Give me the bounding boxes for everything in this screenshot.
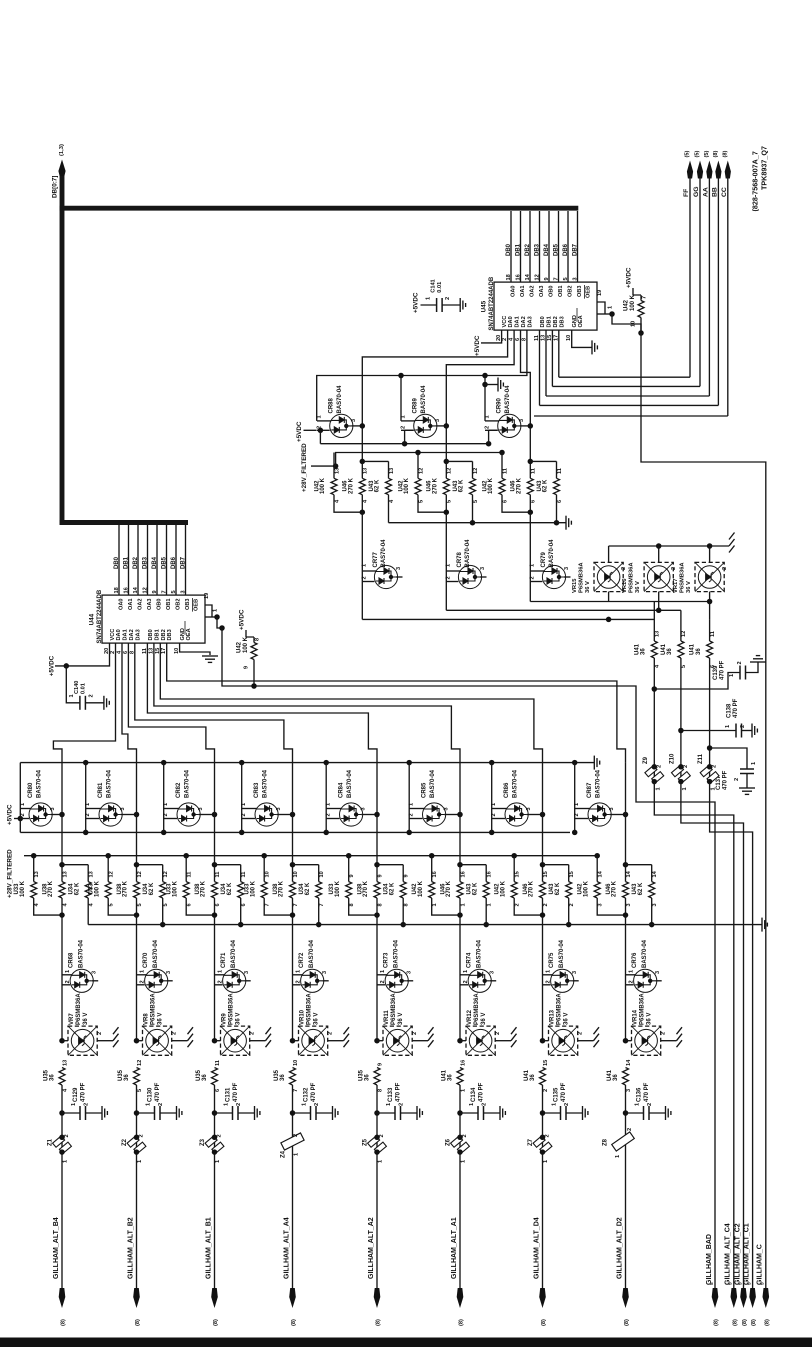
svg-text:2: 2 [84, 1103, 90, 1106]
svg-text:5: 5 [447, 500, 453, 503]
suppressor VR17 P6SMB36A 36V [709, 546, 711, 562]
IC U45 SN74ABT2244ADB buffer [494, 282, 597, 330]
svg-text:5: 5 [137, 903, 143, 906]
capacitor C131 470PF [212, 1110, 218, 1116]
svg-text:(8): (8) [213, 1319, 219, 1326]
svg-text:11: 11 [710, 631, 716, 637]
svg-text:DB2: DB2 [133, 556, 139, 569]
svg-text:270 K: 270 K [433, 477, 439, 494]
svg-text:2: 2 [445, 297, 451, 300]
svg-text:12: 12 [534, 274, 540, 280]
connector GILLHAM_BAD [712, 1288, 719, 1308]
capacitor C129 470PF [59, 1110, 65, 1116]
svg-text:BAS70-04: BAS70-04 [79, 939, 85, 968]
svg-text:CR87: CR87 [587, 782, 593, 798]
svg-text:AA: AA [702, 187, 709, 197]
off-page connector BB [715, 161, 721, 179]
resistor U41 36 ohm #2 [680, 610, 682, 641]
svg-text:2: 2 [578, 1032, 584, 1035]
ground at VR14 [677, 1027, 683, 1034]
svg-text:P6SMB36A: P6SMB36A [76, 993, 82, 1025]
svg-text:6: 6 [241, 903, 247, 906]
capacitor C139 470PF [652, 686, 658, 692]
resistor U41 36 ohm column 8 [623, 1068, 629, 1086]
rail +5VDC diode row top [20, 762, 594, 764]
wire enable net to GILLHAM_BAD [222, 628, 715, 1288]
svg-text:270 K: 270 K [279, 880, 285, 897]
svg-text:2: 2 [543, 1089, 549, 1092]
svg-text:U42: U42 [624, 299, 630, 311]
svg-text:CR68: CR68 [69, 952, 75, 968]
svg-text:1: 1 [163, 803, 169, 806]
svg-text:3: 3 [490, 971, 496, 974]
svg-text:OA2: OA2 [529, 285, 535, 297]
diode CR74 BAS70-04 dual [460, 974, 470, 976]
svg-text:DB3: DB3 [142, 556, 148, 569]
svg-text:U41: U41 [690, 643, 696, 655]
svg-text:1: 1 [361, 564, 367, 567]
svg-text:1: 1 [445, 564, 451, 567]
suppressor Z1 [61, 1132, 63, 1289]
svg-text:1: 1 [545, 970, 551, 973]
resistor trio 1 top section (U42 100K / U46 270K / U43 62K) [333, 453, 335, 479]
svg-text:C140: C140 [74, 681, 80, 694]
svg-text:DB2: DB2 [161, 629, 167, 640]
rail diode row bottom [20, 831, 570, 833]
svg-text:16: 16 [515, 274, 521, 280]
svg-text:1: 1 [460, 903, 466, 906]
svg-text:P6SMB36A: P6SMB36A [557, 993, 563, 1025]
svg-text:VR16: VR16 [622, 578, 628, 593]
svg-text:C138: C138 [727, 703, 733, 718]
resistor trio 2 top section (U42 100K / U46 270K / U43 62K) [415, 450, 421, 456]
svg-text:OB2: OB2 [175, 598, 181, 610]
svg-text:(5): (5) [704, 151, 710, 158]
trio 2 bottom ties [418, 495, 446, 513]
svg-text:1: 1 [615, 1155, 621, 1158]
connector GILLHAM_ALT_C2 [740, 1288, 747, 1308]
svg-text:1: 1 [137, 1160, 143, 1163]
svg-text:1: 1 [378, 1160, 384, 1163]
svg-text:1: 1 [380, 970, 386, 973]
svg-text:Z7: Z7 [528, 1138, 534, 1146]
diode CR88 BAS70-04 dual [317, 420, 331, 422]
resistor U35 36 ohm column 5 [374, 1068, 380, 1086]
svg-text:36 V: 36 V [158, 1013, 164, 1025]
svg-text:19: 19 [597, 290, 603, 296]
svg-text:6: 6 [215, 903, 221, 906]
svg-text:2: 2 [326, 813, 332, 816]
svg-text:270 K: 270 K [529, 880, 535, 897]
svg-text:VR9: VR9 [222, 1013, 228, 1025]
svg-text:1: 1 [655, 787, 661, 790]
svg-text:C135: C135 [554, 1087, 560, 1102]
svg-text:100 K: 100 K [243, 636, 249, 653]
diode CR70 BAS70-04 dual [137, 974, 147, 976]
svg-text:1: 1 [491, 803, 497, 806]
svg-text:10: 10 [319, 871, 325, 877]
svg-text:13: 13 [655, 631, 661, 637]
svg-text:BAS70-04: BAS70-04 [465, 539, 471, 568]
svg-text:(8): (8) [732, 1319, 738, 1326]
svg-text:U35: U35 [44, 1069, 50, 1081]
rail +28V top resistor network [336, 453, 502, 467]
connector GILLHAM_ALT_A4 [289, 1288, 296, 1308]
svg-text:7: 7 [265, 903, 271, 906]
svg-text:OB1: OB1 [558, 285, 564, 297]
rail VR15-17 tops to ground [609, 545, 729, 547]
svg-text:12: 12 [681, 631, 687, 637]
svg-text:3: 3 [396, 567, 402, 570]
svg-text:12: 12 [137, 1060, 143, 1066]
svg-text:100 K: 100 K [418, 880, 424, 897]
svg-text:GILLHAM_ALT_C1: GILLHAM_ALT_C1 [743, 1223, 750, 1285]
svg-text:9: 9 [404, 874, 410, 877]
svg-text:1: 1 [725, 725, 731, 728]
off-page connector GG [697, 161, 703, 179]
svg-text:CR79: CR79 [541, 551, 547, 567]
diode CR71 BAS70-04 dual [215, 974, 225, 976]
svg-text:2: 2 [139, 980, 145, 983]
wire U44 VCC +5VDC [55, 643, 110, 666]
svg-text:62 K: 62 K [555, 882, 561, 895]
svg-text:2: 2 [217, 980, 223, 983]
svg-text:62 K: 62 K [389, 882, 395, 895]
svg-text:(8): (8) [742, 1319, 748, 1326]
svg-text:3: 3 [519, 419, 525, 422]
svg-text:470 PF: 470 PF [233, 1082, 239, 1102]
svg-text:DB6: DB6 [171, 556, 177, 569]
svg-text:GG: GG [693, 186, 700, 197]
svg-text:DA2: DA2 [521, 316, 527, 327]
svg-text:36 V: 36 V [236, 1013, 242, 1025]
svg-text:2: 2 [482, 1103, 488, 1106]
svg-text:1: 1 [608, 306, 614, 309]
svg-text:470 PF: 470 PF [722, 770, 728, 790]
svg-text:36 V: 36 V [686, 581, 692, 593]
resistor U41 36 ohm column 7 [540, 1068, 546, 1086]
svg-text:GILLHAM_ALT_D4: GILLHAM_ALT_D4 [533, 1217, 540, 1279]
svg-text:1: 1 [71, 1103, 77, 1106]
svg-text:BAS70-04: BAS70-04 [642, 939, 648, 968]
svg-text:OB2: OB2 [567, 285, 573, 297]
svg-text:2: 2 [737, 661, 743, 664]
svg-text:7: 7 [642, 296, 648, 299]
resistor U41 36 ohm column 6 [457, 1068, 463, 1086]
connector GILLHAM_ALT_A1 [457, 1288, 464, 1308]
diode CR78 BAS70-04 dual [445, 571, 447, 610]
svg-text:Z1: Z1 [48, 1138, 54, 1146]
svg-text:12: 12 [109, 871, 115, 877]
svg-text:C130: C130 [148, 1087, 154, 1102]
suppressor VR11 P6SMB36A 36V [374, 1038, 380, 1044]
svg-text:3: 3 [120, 807, 126, 810]
connector GILLHAM_ALT_D4 [539, 1288, 546, 1308]
resistor U35 36 ohm column 1 [59, 1068, 65, 1086]
svg-text:470 PF: 470 PF [311, 1082, 317, 1102]
svg-text:U41: U41 [524, 1069, 530, 1081]
resistor trio lower #6 (U42 100 K / U46 270 K / U43 62 K) [429, 853, 435, 859]
svg-text:DA0: DA0 [116, 629, 122, 640]
svg-text:36 V: 36 V [564, 1013, 570, 1025]
svg-text:2: 2 [217, 1134, 223, 1137]
svg-text:CR90: CR90 [497, 397, 503, 413]
svg-text:15: 15 [543, 871, 549, 877]
svg-text:3: 3 [626, 903, 632, 906]
svg-text:2: 2 [361, 576, 367, 579]
svg-text:470 PF: 470 PF [155, 1082, 161, 1102]
resistor trio lower #4 (U33 100 K / U38 270 K / U34 62 K) [261, 853, 267, 859]
svg-text:DB5: DB5 [161, 556, 167, 569]
connector GILLHAM_ALT_B2 [133, 1288, 140, 1308]
svg-text:Z10: Z10 [669, 753, 675, 764]
svg-text:BAS70-04: BAS70-04 [106, 769, 112, 798]
suppressor VR13 P6SMB36A 36V [540, 1038, 546, 1044]
svg-text:36 V: 36 V [83, 1013, 89, 1025]
svg-text:1: 1 [65, 970, 71, 973]
svg-text:2: 2 [20, 813, 26, 816]
svg-text:6: 6 [502, 500, 508, 503]
svg-text:1: 1 [529, 564, 535, 567]
svg-text:1: 1 [751, 762, 757, 765]
svg-text:100 K: 100 K [20, 880, 26, 897]
svg-text:CC: CC [721, 187, 728, 197]
svg-text:(8): (8) [459, 1319, 465, 1326]
svg-text:9: 9 [349, 874, 355, 877]
svg-text:OEB: OEB [586, 286, 592, 298]
svg-text:CR80: CR80 [28, 782, 34, 798]
svg-text:(8): (8) [376, 1319, 382, 1326]
diode CR90 BAS70-04 dual [482, 373, 488, 379]
svg-text:2: 2 [661, 1032, 667, 1035]
svg-text:VR14: VR14 [633, 1009, 639, 1025]
svg-text:3: 3 [276, 807, 282, 810]
svg-text:BAS70-04: BAS70-04 [421, 385, 427, 414]
svg-text:16: 16 [487, 871, 493, 877]
svg-text:1: 1 [682, 787, 688, 790]
svg-text:DB0: DB0 [148, 629, 154, 640]
svg-text:1: 1 [295, 970, 301, 973]
svg-text:11: 11 [531, 468, 537, 474]
svg-text:DB5: DB5 [553, 243, 559, 256]
suppressor Z10 [680, 766, 682, 783]
svg-text:13: 13 [334, 468, 340, 474]
svg-text:DB2: DB2 [553, 316, 559, 327]
svg-text:1: 1 [213, 609, 219, 612]
svg-text:5: 5 [473, 500, 479, 503]
svg-text:+5VDC: +5VDC [474, 335, 481, 356]
svg-text:5: 5 [418, 500, 424, 503]
connector GILLHAM_ALT_D2 [622, 1288, 629, 1308]
svg-text:14: 14 [652, 870, 658, 877]
svg-text:1: 1 [463, 970, 469, 973]
svg-text:6: 6 [215, 1089, 221, 1092]
svg-text:2: 2 [495, 1032, 501, 1035]
diode CR82 BAS70-04 dual [161, 760, 167, 766]
svg-text:3: 3 [198, 807, 204, 810]
resistor trio lower #1 (U33 100 K / U38 270 K / U34 62 K) [31, 853, 37, 859]
svg-text:2: 2 [671, 567, 677, 570]
svg-text:15: 15 [515, 871, 521, 877]
svg-text:5: 5 [681, 665, 687, 668]
svg-text:1: 1 [215, 1160, 221, 1163]
svg-text:1: 1 [241, 803, 247, 806]
ground at U45 pin10 [591, 340, 593, 354]
resistor trio lower #3 (U33 100 K / U38 270 K / U34 62 K) [183, 853, 189, 859]
svg-text:13: 13 [89, 871, 95, 877]
diode CR81 BAS70-04 dual [83, 760, 89, 766]
svg-text:36: 36 [124, 1074, 130, 1081]
svg-text:3: 3 [480, 567, 486, 570]
connector GILLHAM_ALT_B4 [59, 1288, 66, 1308]
svg-text:2: 2 [379, 1134, 385, 1137]
svg-text:VR12: VR12 [467, 1009, 473, 1025]
svg-text:DA3: DA3 [527, 316, 533, 327]
svg-text:3: 3 [609, 807, 615, 810]
wire U45 GND pin10 to ground [572, 330, 592, 347]
svg-text:C136: C136 [637, 1087, 643, 1102]
svg-text:GILLHAM_ALT_B1: GILLHAM_ALT_B1 [205, 1217, 212, 1279]
diode CR86 BAS70-04 dual [489, 760, 495, 766]
svg-text:(8): (8) [713, 151, 719, 158]
svg-text:13: 13 [363, 468, 369, 474]
svg-text:270 K: 270 K [123, 880, 129, 897]
svg-text:BAS70-04: BAS70-04 [559, 939, 565, 968]
svg-text:13: 13 [389, 468, 395, 474]
resistor trio lower #7 (U42 100 K / U46 270 K / U43 62 K) [511, 853, 517, 859]
svg-text:U41: U41 [634, 643, 640, 655]
wire U45 DA1 to CR89 column [446, 330, 514, 425]
svg-text:1: 1 [400, 415, 406, 418]
svg-text:12: 12 [142, 587, 148, 593]
svg-text:CR71: CR71 [221, 952, 227, 968]
svg-text:13: 13 [62, 1060, 68, 1066]
off-page connector CC [725, 161, 731, 179]
svg-text:BAS70-04: BAS70-04 [262, 769, 268, 798]
svg-text:DB6: DB6 [563, 243, 569, 256]
ground at VR7 [113, 1027, 119, 1034]
connector GILLHAM_ALT_A2 [374, 1288, 381, 1308]
svg-text:3: 3 [444, 807, 450, 810]
svg-text:BAS70-04: BAS70-04 [347, 769, 353, 798]
svg-text:5: 5 [163, 903, 169, 906]
svg-text:62 K: 62 K [375, 479, 381, 492]
wire U45 DA2 to CR90 column [521, 330, 531, 425]
svg-text:1: 1 [461, 1089, 467, 1092]
svg-text:OEA: OEA [186, 628, 192, 640]
resistor U42 100K pull-up at U44 OEA/OEB [253, 637, 255, 643]
svg-text:1: 1 [635, 1103, 641, 1106]
svg-text:U35: U35 [359, 1069, 365, 1081]
svg-text:2: 2 [627, 1128, 633, 1131]
suppressor VR9 P6SMB36A 36V [212, 1038, 218, 1044]
svg-text:+28V_FILTERED: +28V_FILTERED [7, 849, 14, 898]
svg-text:9: 9 [544, 277, 550, 280]
svg-text:3: 3 [655, 971, 661, 974]
svg-text:CR78: CR78 [457, 551, 463, 567]
svg-text:U41: U41 [607, 1069, 613, 1081]
svg-text:2: 2 [65, 980, 71, 983]
svg-text:12: 12 [447, 468, 453, 474]
svg-text:OB0: OB0 [156, 598, 162, 610]
svg-text:1: 1 [552, 1103, 558, 1106]
wires U44 OEA/OEB enable node [205, 616, 217, 618]
svg-text:GILLHAM_ALT_D2: GILLHAM_ALT_D2 [616, 1217, 623, 1279]
connector GILLHAM_ALT_C1 [749, 1288, 756, 1308]
svg-text:TPK8937_Q7: TPK8937_Q7 [760, 146, 769, 190]
svg-text:OA2: OA2 [137, 598, 143, 610]
svg-text:OA3: OA3 [539, 285, 545, 297]
resistor trio 3 top section (U42 100K / U46 270K / U43 62K) [499, 450, 505, 456]
capacitor C135 470PF [540, 1110, 546, 1116]
svg-text:VR13: VR13 [550, 1009, 556, 1025]
svg-text:2: 2 [412, 1032, 418, 1035]
svg-text:+5VDC: +5VDC [238, 609, 245, 630]
svg-text:3: 3 [652, 903, 658, 906]
svg-text:2: 2 [491, 813, 497, 816]
svg-text:CR70: CR70 [143, 952, 149, 968]
diode CR72 BAS70-04 dual [293, 974, 303, 976]
svg-text:+5VDC: +5VDC [49, 655, 56, 676]
svg-text:+28V_FILTERED: +28V_FILTERED [301, 443, 308, 492]
wires U45 OEA/OEB enable node [597, 313, 612, 315]
svg-text:2: 2 [564, 1103, 570, 1106]
svg-text:36: 36 [365, 1074, 371, 1081]
svg-text:270 K: 270 K [612, 880, 618, 897]
svg-text:DB0: DB0 [506, 243, 512, 256]
svg-text:C131: C131 [226, 1087, 232, 1102]
svg-text:OB1: OB1 [166, 598, 172, 610]
svg-text:470 PF: 470 PF [81, 1082, 87, 1102]
svg-text:470 PF: 470 PF [733, 698, 739, 718]
columns down to CR68-76 row [61, 915, 63, 1041]
svg-text:(1,3): (1,3) [59, 144, 65, 156]
svg-text:2: 2 [64, 1134, 70, 1137]
svg-text:270 K: 270 K [201, 880, 207, 897]
svg-text:CR84: CR84 [339, 782, 345, 798]
diode CR83 BAS70-04 dual [239, 760, 245, 766]
svg-text:GILLHAM_C: GILLHAM_C [757, 1244, 764, 1285]
svg-text:9: 9 [377, 1063, 383, 1066]
ground at VR11 [428, 1027, 434, 1034]
svg-text:19: 19 [204, 593, 210, 599]
svg-text:DB4: DB4 [152, 556, 158, 569]
resistor U35 36 ohm column 3 [212, 1068, 218, 1086]
svg-text:11: 11 [215, 1060, 221, 1066]
svg-text:GILLHAM_ALT_C2: GILLHAM_ALT_C2 [734, 1223, 741, 1285]
svg-text:VR10: VR10 [300, 1009, 306, 1025]
svg-text:2: 2 [97, 1032, 103, 1035]
svg-text:10: 10 [293, 1060, 299, 1066]
svg-text:DB1: DB1 [154, 629, 160, 640]
svg-text:GILLHAM_ALT_C4: GILLHAM_ALT_C4 [725, 1223, 732, 1285]
diode CR85 BAS70-04 dual [406, 760, 412, 766]
svg-text:12: 12 [137, 871, 143, 877]
diode CR87 BAS70-04 dual [572, 760, 578, 766]
ground at VR10 [344, 1027, 350, 1034]
suppressor VR16 P6SMB36A 36V [658, 546, 660, 562]
resistor U35 36 ohm column 2 [134, 1068, 140, 1086]
svg-text:36 V: 36 V [481, 1013, 487, 1025]
svg-text:BAS70-04: BAS70-04 [337, 385, 343, 414]
svg-text:VR17: VR17 [673, 578, 679, 593]
svg-text:CR76: CR76 [632, 952, 638, 968]
svg-text:1: 1 [409, 803, 415, 806]
svg-text:2: 2 [543, 903, 549, 906]
resistor trio lower #5 (U33 100 K / U38 270 K / U34 62 K) [346, 853, 352, 859]
resistor U42 100K pull-up at U45 OEA/OEB [640, 295, 642, 301]
svg-text:100 K: 100 K [94, 880, 100, 897]
